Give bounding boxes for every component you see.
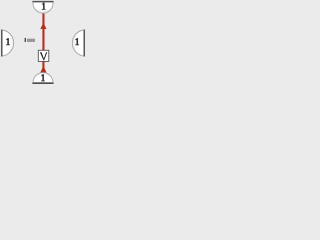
current arrow (up): [40, 23, 46, 29]
contact 1 bottom: [32, 73, 53, 84]
background: [0, 0, 86, 86]
italic V glyph: [40, 52, 47, 60]
contact 1 top: [32, 2, 53, 14]
current label I14 (tiny smudge): [25, 38, 35, 42]
wire lower segment: [42, 62, 44, 73]
contact 1 right: [72, 30, 84, 57]
contact 1 left: [2, 30, 14, 57]
wire upper segment: [42, 13, 44, 51]
voltmeter V box: [38, 50, 49, 61]
arrowhead at bottom contact: [40, 66, 46, 73]
